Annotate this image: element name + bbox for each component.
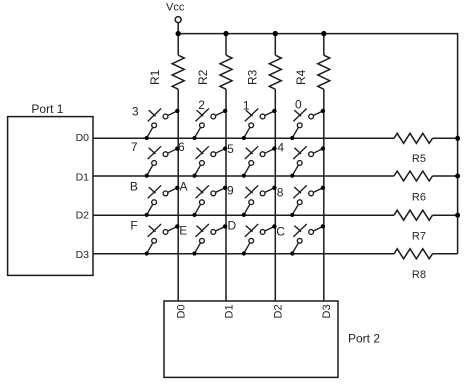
svg-text:D2: D2 [273,304,285,318]
svg-text:R6: R6 [412,191,426,203]
svg-text:R1: R1 [148,69,162,85]
svg-text:Vcc: Vcc [166,1,185,13]
svg-text:R7: R7 [412,231,426,243]
svg-text:F: F [130,219,137,233]
svg-text:5: 5 [227,142,234,156]
svg-text:D3: D3 [321,304,333,318]
svg-text:B: B [130,180,138,194]
svg-text:Port 1: Port 1 [31,102,63,116]
svg-text:6: 6 [178,140,185,154]
svg-text:D1: D1 [76,171,90,183]
svg-text:D0: D0 [176,304,188,318]
svg-text:4: 4 [277,141,284,155]
svg-text:E: E [179,223,187,237]
svg-text:2: 2 [198,98,205,112]
svg-text:D1: D1 [223,304,235,318]
svg-text:0: 0 [295,98,302,112]
svg-text:R8: R8 [412,269,426,281]
svg-text:R2: R2 [196,69,210,85]
svg-text:8: 8 [277,186,284,200]
svg-text:7: 7 [131,140,138,154]
svg-text:D2: D2 [76,210,90,222]
svg-text:3: 3 [132,105,139,119]
svg-text:D: D [228,218,237,232]
svg-text:C: C [276,224,285,238]
svg-text:9: 9 [227,183,234,197]
svg-text:R3: R3 [245,69,259,85]
svg-text:Port 2: Port 2 [348,332,380,346]
svg-text:1: 1 [243,98,250,112]
svg-text:D0: D0 [76,132,90,144]
svg-text:D3: D3 [76,249,90,261]
svg-text:A: A [180,179,188,193]
svg-text:R4: R4 [294,69,308,85]
svg-text:R5: R5 [412,153,426,165]
